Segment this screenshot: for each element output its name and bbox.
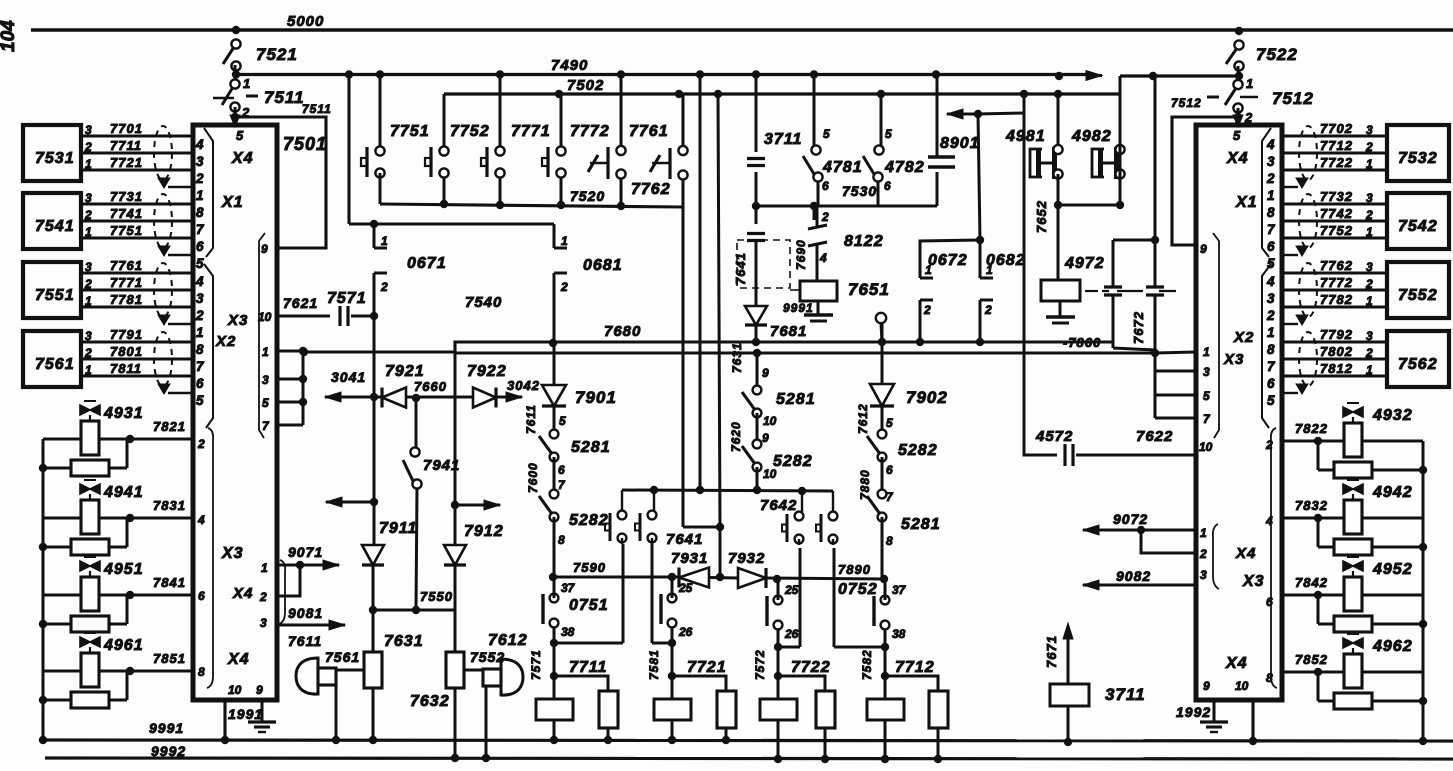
- svg-text:7520: 7520: [570, 188, 605, 204]
- svg-text:0681: 0681: [583, 257, 623, 274]
- svg-text:9991: 9991: [149, 720, 184, 736]
- svg-text:3: 3: [1203, 365, 1210, 379]
- svg-text:X3: X3: [1242, 573, 1265, 590]
- svg-text:8: 8: [1267, 205, 1275, 220]
- svg-text:X4: X4: [1225, 655, 1248, 672]
- svg-text:4941: 4941: [103, 484, 144, 501]
- svg-text:25: 25: [678, 581, 693, 595]
- svg-text:9082: 9082: [1116, 568, 1151, 584]
- svg-text:7792: 7792: [1320, 327, 1353, 342]
- svg-text:7841: 7841: [153, 575, 186, 590]
- svg-text:7511: 7511: [264, 88, 305, 107]
- svg-text:3: 3: [260, 616, 267, 630]
- svg-text:7582: 7582: [860, 649, 874, 680]
- svg-text:4782: 4782: [884, 159, 925, 176]
- svg-text:8: 8: [886, 534, 893, 548]
- svg-text:7741: 7741: [110, 206, 143, 221]
- svg-text:7791: 7791: [110, 327, 143, 342]
- svg-text:2: 2: [84, 140, 92, 154]
- svg-text:7922: 7922: [467, 363, 507, 380]
- svg-text:4961: 4961: [103, 637, 144, 654]
- svg-text:5: 5: [196, 393, 204, 408]
- svg-text:2: 2: [84, 277, 92, 291]
- svg-text:7522: 7522: [1256, 45, 1298, 64]
- svg-text:3711: 3711: [1105, 685, 1146, 704]
- svg-text:3: 3: [1267, 154, 1275, 169]
- svg-text:4572: 4572: [1035, 428, 1073, 445]
- svg-text:7762: 7762: [1320, 258, 1353, 273]
- svg-text:7932: 7932: [728, 550, 765, 567]
- svg-text:6: 6: [196, 376, 204, 391]
- svg-text:4951: 4951: [103, 561, 144, 578]
- svg-text:7531: 7531: [35, 150, 75, 167]
- svg-text:7552: 7552: [1398, 287, 1438, 304]
- svg-text:1: 1: [1200, 526, 1207, 540]
- svg-text:3: 3: [85, 260, 92, 274]
- svg-text:10: 10: [258, 310, 272, 324]
- svg-text:1: 1: [85, 225, 92, 239]
- svg-text:5281: 5281: [901, 516, 941, 533]
- svg-text:9072: 9072: [1113, 511, 1148, 527]
- svg-text:10: 10: [1235, 679, 1249, 693]
- svg-text:0752: 0752: [838, 581, 878, 598]
- svg-text:3: 3: [1267, 291, 1275, 306]
- svg-text:7921: 7921: [385, 363, 425, 380]
- svg-text:3711: 3711: [764, 131, 802, 148]
- svg-text:3: 3: [196, 154, 204, 169]
- svg-text:7552: 7552: [470, 649, 505, 665]
- svg-text:7831: 7831: [153, 498, 186, 513]
- svg-text:7660: 7660: [414, 379, 447, 394]
- svg-text:X2: X2: [1233, 329, 1254, 346]
- svg-text:7590: 7590: [573, 560, 606, 575]
- svg-text:8: 8: [198, 665, 205, 679]
- svg-text:3: 3: [1366, 123, 1373, 137]
- svg-text:1: 1: [1366, 157, 1373, 171]
- svg-text:5: 5: [1233, 128, 1241, 143]
- svg-text:7571: 7571: [327, 290, 367, 307]
- svg-text:X4: X4: [227, 651, 250, 668]
- svg-text:6: 6: [886, 463, 893, 477]
- svg-text:10: 10: [763, 414, 777, 428]
- svg-text:7581: 7581: [647, 649, 661, 680]
- svg-text:7712: 7712: [895, 659, 935, 676]
- svg-text:4: 4: [195, 274, 204, 289]
- svg-text:4982: 4982: [1071, 128, 1112, 145]
- svg-text:X3: X3: [227, 312, 248, 329]
- svg-text:7842: 7842: [1295, 575, 1328, 590]
- svg-text:7681: 7681: [770, 323, 807, 340]
- svg-text:7561: 7561: [35, 356, 75, 373]
- svg-text:7911: 7911: [379, 520, 417, 537]
- svg-text:5000: 5000: [287, 13, 324, 30]
- svg-text:5281: 5281: [571, 439, 611, 456]
- svg-text:7512: 7512: [1272, 89, 1314, 108]
- svg-text:4942: 4942: [1372, 484, 1413, 501]
- svg-text:37: 37: [561, 581, 576, 595]
- svg-text:3: 3: [196, 291, 204, 306]
- svg-text:1: 1: [1203, 345, 1210, 359]
- svg-text:8: 8: [558, 533, 565, 547]
- svg-text:7812: 7812: [1320, 361, 1353, 376]
- svg-text:7571: 7571: [529, 649, 543, 680]
- svg-text:4: 4: [1266, 274, 1275, 289]
- svg-text:X4: X4: [232, 585, 253, 602]
- svg-text:1: 1: [381, 234, 388, 248]
- svg-text:5282: 5282: [898, 442, 938, 459]
- svg-text:1: 1: [196, 188, 204, 203]
- svg-text:5282: 5282: [569, 512, 609, 529]
- svg-text:7742: 7742: [1320, 206, 1353, 221]
- svg-text:7631: 7631: [384, 633, 424, 650]
- svg-text:7701: 7701: [110, 121, 143, 136]
- svg-text:7832: 7832: [1295, 498, 1328, 513]
- svg-text:0751: 0751: [569, 597, 609, 614]
- svg-text:7781: 7781: [110, 292, 143, 307]
- svg-text:9: 9: [1200, 242, 1207, 256]
- svg-text:4: 4: [195, 137, 204, 152]
- svg-text:9: 9: [1203, 679, 1210, 693]
- svg-text:5: 5: [196, 256, 204, 271]
- svg-text:-7860: -7860: [1063, 335, 1101, 350]
- svg-text:2: 2: [821, 210, 829, 224]
- svg-text:5282: 5282: [773, 453, 813, 470]
- svg-text:7732: 7732: [1320, 189, 1353, 204]
- svg-text:7511: 7511: [302, 102, 332, 116]
- svg-text:7722: 7722: [1320, 155, 1353, 170]
- svg-text:4931: 4931: [103, 405, 144, 422]
- svg-text:1992: 1992: [1176, 704, 1211, 720]
- svg-text:2: 2: [560, 280, 568, 294]
- svg-text:38: 38: [892, 627, 906, 641]
- svg-text:X3: X3: [221, 545, 244, 562]
- svg-text:5281: 5281: [776, 391, 816, 408]
- svg-text:3: 3: [85, 191, 92, 205]
- svg-text:2: 2: [197, 437, 205, 451]
- svg-text:7652: 7652: [1034, 200, 1049, 233]
- svg-text:7761: 7761: [110, 258, 143, 273]
- svg-text:7802: 7802: [1320, 344, 1353, 359]
- svg-text:7641: 7641: [666, 531, 703, 548]
- svg-text:2: 2: [84, 346, 92, 360]
- svg-text:1: 1: [1246, 76, 1253, 91]
- svg-text:7880: 7880: [858, 469, 872, 500]
- svg-text:9991: 9991: [783, 301, 814, 315]
- svg-text:7502: 7502: [567, 77, 604, 94]
- svg-text:5: 5: [236, 128, 244, 143]
- svg-text:7890: 7890: [838, 562, 871, 577]
- svg-text:X4: X4: [231, 150, 254, 167]
- svg-text:7611: 7611: [524, 404, 538, 434]
- svg-text:X1: X1: [1235, 194, 1258, 211]
- svg-text:0672: 0672: [928, 252, 968, 269]
- svg-text:7801: 7801: [110, 344, 143, 359]
- svg-text:9071: 9071: [288, 544, 323, 560]
- svg-text:7541: 7541: [35, 218, 75, 235]
- svg-text:7620: 7620: [729, 421, 743, 452]
- svg-text:10: 10: [228, 683, 242, 697]
- svg-text:7672: 7672: [1131, 311, 1146, 344]
- svg-text:4952: 4952: [1372, 561, 1413, 578]
- svg-text:X2: X2: [215, 333, 236, 350]
- svg-text:3042: 3042: [507, 378, 540, 393]
- svg-text:7632: 7632: [410, 693, 450, 710]
- svg-text:2: 2: [1365, 346, 1373, 360]
- svg-text:2: 2: [1365, 140, 1373, 154]
- svg-text:9: 9: [261, 242, 268, 256]
- svg-text:1: 1: [243, 76, 250, 91]
- svg-text:4972: 4972: [1064, 255, 1105, 272]
- svg-text:7490: 7490: [551, 57, 588, 74]
- svg-text:1: 1: [261, 561, 268, 575]
- svg-text:7501: 7501: [283, 134, 327, 154]
- svg-text:3: 3: [85, 123, 92, 137]
- svg-text:3: 3: [1366, 329, 1373, 343]
- svg-text:7530: 7530: [842, 183, 877, 199]
- svg-text:2: 2: [923, 303, 931, 317]
- svg-text:7562: 7562: [1398, 356, 1438, 373]
- svg-text:6: 6: [1267, 376, 1275, 391]
- svg-text:7721: 7721: [110, 155, 143, 170]
- svg-text:7762: 7762: [631, 181, 671, 198]
- svg-text:7521: 7521: [256, 45, 298, 64]
- svg-text:0682: 0682: [986, 252, 1026, 269]
- svg-text:8: 8: [196, 342, 204, 357]
- svg-text:3041: 3041: [331, 369, 366, 385]
- svg-text:1: 1: [1267, 188, 1275, 203]
- svg-text:2: 2: [1266, 308, 1275, 323]
- svg-text:X4: X4: [1226, 150, 1249, 167]
- svg-text:1: 1: [1366, 294, 1373, 308]
- svg-text:9992: 9992: [151, 743, 186, 759]
- svg-text:X3: X3: [1223, 351, 1244, 368]
- svg-text:8122: 8122: [844, 233, 884, 250]
- svg-text:6: 6: [558, 463, 565, 477]
- svg-text:1: 1: [1267, 325, 1275, 340]
- svg-text:5: 5: [1267, 256, 1275, 271]
- svg-text:0671: 0671: [407, 255, 447, 272]
- svg-text:2: 2: [1266, 171, 1275, 186]
- svg-text:7771: 7771: [110, 275, 143, 290]
- svg-text:7751: 7751: [390, 123, 430, 140]
- svg-text:7712: 7712: [1320, 138, 1353, 153]
- svg-text:5: 5: [1267, 393, 1275, 408]
- svg-text:7782: 7782: [1320, 292, 1353, 307]
- svg-text:38: 38: [561, 625, 575, 639]
- svg-text:4: 4: [1266, 137, 1275, 152]
- svg-text:1: 1: [561, 234, 568, 248]
- svg-text:2: 2: [195, 171, 204, 186]
- svg-text:7540: 7540: [465, 294, 502, 311]
- svg-text:5: 5: [262, 396, 269, 410]
- svg-text:X4: X4: [1235, 545, 1256, 562]
- svg-text:25: 25: [784, 583, 799, 597]
- svg-text:6: 6: [1267, 239, 1275, 254]
- svg-text:1: 1: [1366, 225, 1373, 239]
- svg-text:2: 2: [84, 208, 92, 222]
- svg-text:7612: 7612: [488, 632, 528, 649]
- svg-text:7512: 7512: [1171, 96, 1202, 110]
- svg-text:7711: 7711: [110, 138, 142, 153]
- svg-text:1: 1: [196, 325, 204, 340]
- svg-text:5: 5: [559, 414, 566, 428]
- svg-text:26: 26: [784, 627, 799, 641]
- svg-text:7690: 7690: [794, 239, 808, 270]
- svg-text:2: 2: [195, 308, 204, 323]
- svg-text:9: 9: [256, 683, 263, 697]
- svg-text:7912: 7912: [464, 523, 504, 540]
- svg-text:6: 6: [198, 589, 205, 603]
- svg-text:4: 4: [197, 513, 205, 527]
- svg-text:7550: 7550: [420, 589, 453, 604]
- svg-text:7711: 7711: [569, 659, 607, 676]
- svg-text:7721: 7721: [687, 659, 727, 676]
- svg-text:1: 1: [85, 363, 92, 377]
- svg-text:7551: 7551: [35, 287, 75, 304]
- svg-text:7771: 7771: [511, 123, 551, 140]
- svg-text:7621: 7621: [283, 295, 318, 311]
- svg-text:7821: 7821: [153, 419, 186, 434]
- svg-text:7931: 7931: [671, 550, 708, 567]
- svg-text:7722: 7722: [791, 659, 831, 676]
- svg-text:4962: 4962: [1372, 638, 1413, 655]
- svg-text:7671: 7671: [1044, 635, 1059, 668]
- svg-text:8901: 8901: [940, 135, 980, 152]
- svg-text:7772: 7772: [1320, 275, 1353, 290]
- svg-text:4: 4: [819, 251, 827, 265]
- svg-text:7622: 7622: [1136, 428, 1173, 445]
- svg-text:2: 2: [380, 280, 388, 294]
- svg-text:1: 1: [85, 294, 92, 308]
- svg-text:7772: 7772: [570, 123, 610, 140]
- svg-text:104: 104: [0, 20, 19, 52]
- svg-text:7811: 7811: [110, 361, 142, 376]
- svg-text:6: 6: [884, 179, 891, 193]
- svg-text:7901: 7901: [575, 388, 617, 407]
- svg-text:7532: 7532: [1398, 150, 1438, 167]
- svg-text:7542: 7542: [1398, 218, 1438, 235]
- svg-text:7752: 7752: [1320, 223, 1353, 238]
- svg-text:5: 5: [885, 127, 892, 141]
- svg-text:9: 9: [762, 431, 769, 445]
- svg-text:4932: 4932: [1372, 407, 1413, 424]
- svg-text:7612: 7612: [856, 403, 870, 434]
- svg-text:7641: 7641: [733, 252, 748, 285]
- svg-text:6: 6: [1266, 595, 1273, 609]
- svg-text:7822: 7822: [1295, 421, 1328, 436]
- svg-text:7572: 7572: [753, 649, 767, 680]
- svg-text:7852: 7852: [1295, 652, 1328, 667]
- svg-text:1: 1: [1366, 363, 1373, 377]
- svg-text:5: 5: [886, 416, 893, 430]
- svg-text:26: 26: [678, 625, 693, 639]
- svg-text:7611: 7611: [288, 633, 322, 649]
- svg-text:2: 2: [1365, 277, 1373, 291]
- svg-text:1: 1: [85, 157, 92, 171]
- svg-text:7702: 7702: [1320, 121, 1353, 136]
- svg-text:1991: 1991: [228, 706, 263, 722]
- svg-text:9081: 9081: [288, 605, 323, 621]
- svg-text:7642: 7642: [760, 497, 797, 514]
- svg-text:7752: 7752: [450, 123, 490, 140]
- svg-text:X1: X1: [221, 194, 244, 211]
- svg-text:5: 5: [823, 127, 830, 141]
- svg-text:7731: 7731: [110, 189, 143, 204]
- svg-text:4781: 4781: [822, 159, 863, 176]
- svg-text:37: 37: [892, 583, 907, 597]
- svg-text:7761: 7761: [629, 123, 669, 140]
- svg-text:1: 1: [262, 345, 269, 359]
- svg-text:3: 3: [262, 373, 269, 387]
- svg-text:7561: 7561: [325, 649, 360, 665]
- svg-text:9: 9: [762, 366, 769, 380]
- svg-text:3: 3: [1366, 191, 1373, 205]
- svg-text:5: 5: [1203, 389, 1210, 403]
- svg-text:7631: 7631: [730, 342, 744, 373]
- svg-text:3: 3: [1200, 568, 1207, 582]
- svg-text:2: 2: [259, 590, 267, 604]
- svg-text:7751: 7751: [110, 223, 143, 238]
- svg-text:2: 2: [984, 303, 992, 317]
- svg-text:7680: 7680: [604, 323, 641, 340]
- svg-text:3: 3: [85, 329, 92, 343]
- svg-text:7600: 7600: [526, 462, 540, 493]
- svg-text:10: 10: [1199, 440, 1213, 454]
- svg-text:7902: 7902: [906, 388, 948, 407]
- svg-text:6: 6: [822, 179, 829, 193]
- svg-text:7651: 7651: [848, 280, 890, 299]
- svg-text:8: 8: [1267, 342, 1275, 357]
- svg-text:6: 6: [196, 239, 204, 254]
- svg-text:8: 8: [196, 205, 204, 220]
- svg-text:2: 2: [1199, 547, 1207, 561]
- svg-text:2: 2: [1365, 208, 1373, 222]
- svg-text:7851: 7851: [153, 651, 186, 666]
- svg-text:3: 3: [1366, 260, 1373, 274]
